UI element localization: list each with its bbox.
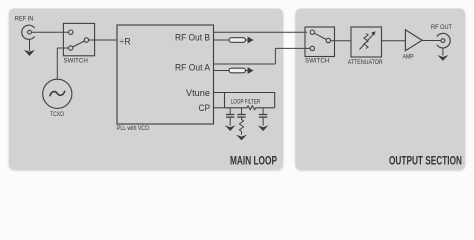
svg-text:RF Out B: RF Out B (175, 32, 210, 43)
svg-text:RF OUT: RF OUT (431, 24, 452, 31)
svg-text:LOOP FILTER: LOOP FILTER (231, 98, 261, 105)
svg-text:SWITCH: SWITCH (305, 58, 330, 65)
svg-text:PLL with VCO: PLL with VCO (117, 125, 149, 132)
svg-text:RF Out A: RF Out A (175, 63, 211, 74)
svg-text:OUTPUT SECTION: OUTPUT SECTION (389, 155, 462, 168)
svg-text:REF IN: REF IN (15, 16, 34, 23)
svg-text:Vtune: Vtune (186, 88, 210, 99)
svg-text:AMP: AMP (403, 54, 414, 61)
svg-text:ATTENUATOR: ATTENUATOR (348, 59, 383, 66)
svg-text:MAIN LOOP: MAIN LOOP (230, 155, 277, 168)
svg-text:TCXO: TCXO (50, 111, 64, 118)
svg-text:CP: CP (199, 103, 211, 114)
svg-text:SWITCH: SWITCH (64, 58, 89, 65)
svg-text:÷R: ÷R (120, 36, 131, 47)
